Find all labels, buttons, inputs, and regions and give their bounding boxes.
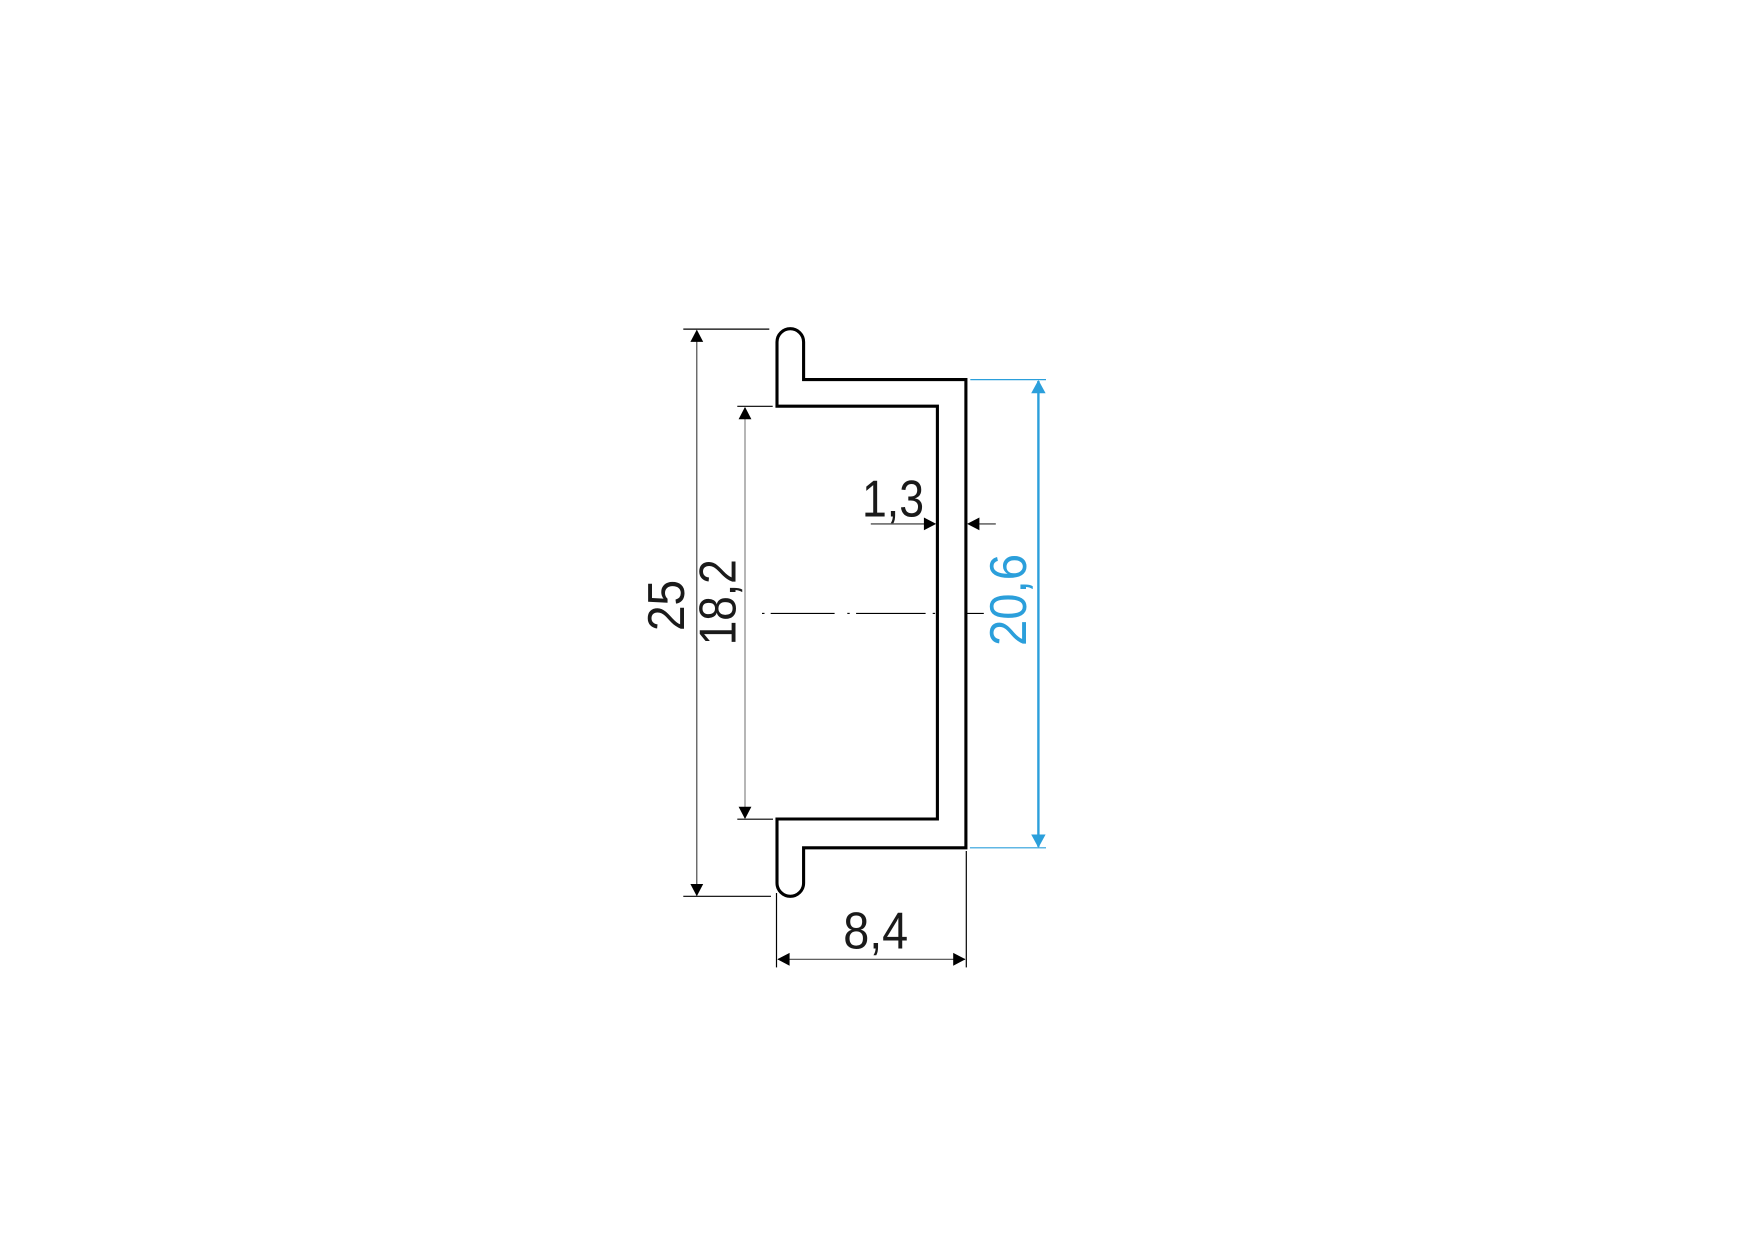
centerline (dash-dot axis) (762, 612, 984, 614)
extension line right (965, 851, 967, 967)
extension line left (776, 893, 778, 967)
arrow left (777, 953, 789, 966)
profile outline (C-channel end cap cross-section) (777, 329, 966, 897)
extension line top (blue) (970, 379, 1046, 381)
arrow down (blue) (1031, 835, 1045, 848)
arrow pointing left at outer wall (967, 518, 979, 531)
arrow pointing right at inner wall (924, 518, 936, 531)
svg-text:18,2: 18,2 (690, 559, 748, 645)
svg-text:20,6: 20,6 (980, 554, 1038, 646)
arrow down (739, 807, 752, 819)
arrow up (blue) (1031, 380, 1045, 393)
arrow down (690, 884, 703, 896)
extension line bottom (683, 895, 771, 897)
dimension line (778, 958, 965, 960)
svg-text:1,3: 1,3 (862, 470, 924, 528)
svg-text:8,4: 8,4 (843, 903, 908, 961)
dimension 20,6 (flange outer height, blue reference) (970, 380, 1046, 848)
dimension 1,3 (wall thickness) (862, 470, 996, 530)
arrow up (739, 407, 752, 419)
dimension line (744, 408, 746, 818)
extension line top (683, 328, 769, 330)
left leader line (871, 523, 925, 525)
dimension 8,4 (flange width, bottom) (777, 851, 967, 967)
dimension 25 (overall height, left) (638, 329, 771, 896)
dimension line (blue) (1037, 381, 1039, 847)
extension line top (737, 405, 772, 407)
svg-text:25: 25 (638, 580, 696, 631)
extension line bottom (737, 818, 773, 820)
dimension 18,2 (inner height) (690, 406, 774, 819)
arrow right (953, 953, 965, 966)
extension line bottom (blue) (970, 847, 1046, 849)
dimension line (696, 331, 698, 896)
right leader line (979, 523, 996, 525)
arrow up (690, 330, 703, 342)
